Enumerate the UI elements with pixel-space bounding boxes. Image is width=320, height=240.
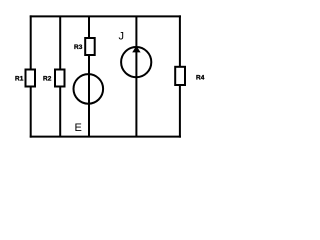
svg-text:R3: R3 — [74, 44, 83, 51]
svg-text:R2: R2 — [43, 76, 52, 83]
svg-text:R1: R1 — [15, 76, 24, 83]
svg-text:R4: R4 — [196, 75, 205, 82]
svg-text:J: J — [119, 31, 125, 43]
svg-text:E: E — [75, 122, 82, 134]
